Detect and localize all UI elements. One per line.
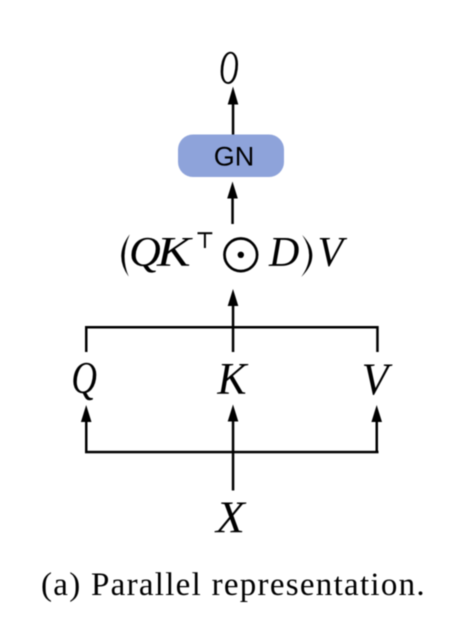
formula close paren (301, 235, 312, 277)
svg-text:D: D (268, 230, 299, 276)
formula transpose symbol (198, 233, 213, 248)
svg-text:Q: Q (71, 352, 97, 404)
svg-text:V: V (318, 230, 348, 276)
svg-text:GN: GN (214, 142, 255, 172)
wire X to bottom bus (232, 453, 235, 491)
svg-text:O: O (219, 42, 238, 95)
wire arrow formula to GN (227, 182, 238, 225)
wire arrow bottom to K (228, 405, 239, 453)
wire arrow bottom to V (371, 405, 382, 452)
svg-text:K: K (156, 230, 193, 276)
bottom bus wire (85, 451, 379, 454)
wire arrow GN to O (228, 87, 239, 135)
svg-text:X: X (214, 493, 247, 543)
formula open paren (121, 234, 130, 276)
wire arrow bottom to Q (81, 405, 92, 452)
top bracket wire (85, 326, 379, 352)
svg-text:(a) Parallel representation.: (a) Parallel representation. (41, 567, 426, 603)
wire arrow bracket to formula (228, 289, 239, 352)
svg-text:V: V (362, 353, 393, 404)
formula odot operator (225, 239, 258, 272)
svg-text:K: K (216, 353, 248, 404)
GN group-norm box U1 (178, 135, 284, 178)
